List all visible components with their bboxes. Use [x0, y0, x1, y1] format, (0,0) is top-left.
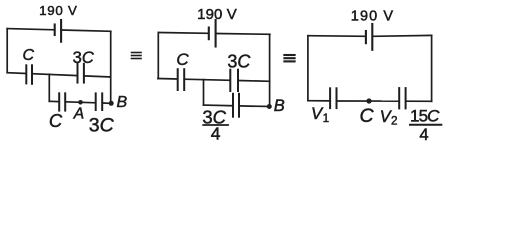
- capacitor C7 value 3C/4: [232, 94, 234, 117]
- svg-text:1: 1: [323, 112, 330, 125]
- capacitor C5 value C: [177, 69, 179, 90]
- wire top row left of battery: [159, 32, 208, 35]
- wire bottom row left segment: [308, 100, 330, 102]
- capacitor C6 value 3C: [229, 70, 231, 91]
- node B: [109, 101, 114, 106]
- node C: [366, 98, 371, 103]
- capacitor C3 value C: [58, 93, 60, 110]
- battery B3 label 190 V: [351, 8, 394, 24]
- wire bottom row centre segment: [66, 102, 96, 103]
- wire top row right of battery: [373, 34, 432, 37]
- wire bottom row centre segment: [337, 100, 399, 102]
- svg-text:C: C: [176, 50, 189, 69]
- battery B3 short plate: [365, 31, 367, 43]
- wire branch down: [48, 74, 50, 101]
- wire bottom row right segment: [406, 100, 432, 102]
- battery B2 short plate: [208, 28, 210, 40]
- wire top row left of battery: [7, 29, 54, 30]
- wire bottom row left segment: [49, 100, 59, 102]
- capacitor C1 value C: [25, 65, 27, 83]
- wire bottom row right segment: [103, 102, 111, 104]
- battery B3 long plate: [371, 24, 373, 50]
- battery B1 label 190 V: [39, 3, 78, 18]
- svg-text:B: B: [274, 97, 285, 115]
- wire left vertical: [6, 29, 8, 73]
- capacitor C8 voltage V1: [329, 88, 331, 108]
- battery B2 label 190 V: [197, 6, 237, 23]
- svg-text:15C: 15C: [410, 106, 440, 125]
- wire middle row right segment: [238, 80, 269, 83]
- wire middle row left segment: [7, 72, 26, 75]
- wire left vertical: [157, 33, 159, 79]
- svg-text:A: A: [73, 106, 84, 123]
- svg-text:190 V: 190 V: [197, 6, 237, 23]
- svg-text:B: B: [116, 94, 127, 111]
- wire top row right of battery: [217, 33, 270, 36]
- capacitor C9 value 15C/4: [398, 88, 400, 108]
- svg-text:3C: 3C: [73, 49, 94, 67]
- wire top row left of battery: [308, 35, 366, 38]
- svg-text:C: C: [359, 105, 374, 127]
- svg-text:C: C: [23, 47, 35, 64]
- svg-text:4: 4: [211, 124, 221, 142]
- wire bottom row right segment: [239, 105, 269, 108]
- svg-text:190 V: 190 V: [351, 8, 394, 24]
- svg-text:3C: 3C: [227, 52, 251, 72]
- battery B2 long plate: [215, 20, 217, 47]
- wire right vertical: [110, 31, 112, 103]
- svg-text:4: 4: [419, 125, 428, 141]
- wire middle row left segment: [158, 78, 178, 81]
- svg-text:C: C: [49, 110, 63, 131]
- equivalence symbol 2: [284, 55, 294, 61]
- node B: [267, 104, 272, 109]
- wire right vertical: [269, 34, 271, 106]
- wire middle row centre segment: [185, 79, 231, 80]
- wire branch down: [203, 80, 205, 106]
- battery B1 short plate: [54, 25, 56, 36]
- wire top row right of battery: [62, 30, 111, 31]
- wire middle row centre segment: [32, 74, 77, 76]
- label V2: [380, 108, 398, 128]
- svg-text:190 V: 190 V: [39, 3, 78, 18]
- capacitor C4 value 3C: [95, 93, 97, 110]
- equivalence symbol 1: [132, 53, 142, 59]
- wire right vertical: [431, 35, 433, 101]
- svg-text:3C: 3C: [89, 114, 115, 136]
- battery B1 long plate: [60, 20, 62, 42]
- wire bottom row left segment: [204, 104, 233, 107]
- node A: [78, 100, 83, 105]
- capacitor C2 value 3C: [77, 64, 79, 83]
- wire left vertical: [307, 36, 309, 101]
- wire middle row right segment: [84, 76, 110, 77]
- svg-text:2: 2: [391, 115, 398, 128]
